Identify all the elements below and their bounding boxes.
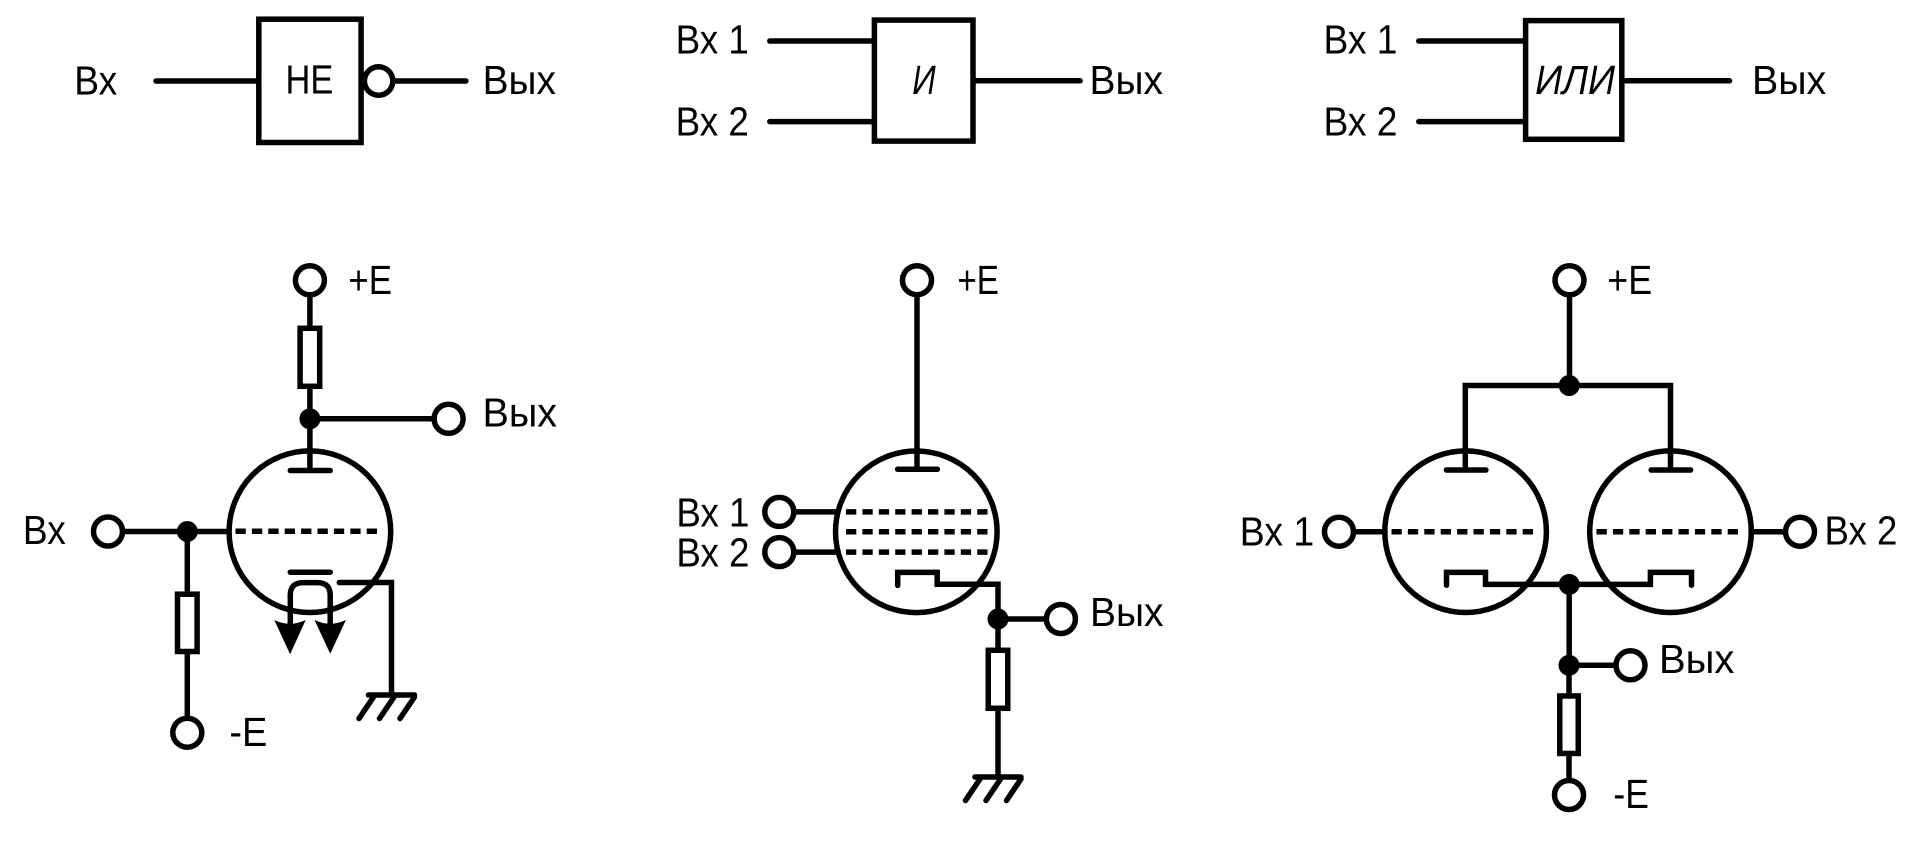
svg-text:Вх 1: Вх 1 bbox=[1324, 16, 1398, 62]
svg-text:+Е: +Е bbox=[957, 257, 999, 303]
label Вх 2 (AND gate) bbox=[676, 99, 749, 145]
svg-text:+Е: +Е bbox=[348, 257, 392, 303]
wire Вх 2 to grid 3 bbox=[794, 549, 837, 555]
label Вых bbox=[1659, 636, 1734, 682]
wire node to Вых terminal bbox=[1569, 663, 1615, 669]
svg-text:Вх 2: Вх 2 bbox=[1324, 99, 1398, 145]
svg-text:Вх 2: Вх 2 bbox=[676, 99, 749, 145]
heater arrow left bbox=[274, 620, 305, 654]
terminal -Е bbox=[1555, 781, 1584, 810]
vacuum tube V1 envelope bbox=[229, 451, 391, 613]
cathode V2 with lead bbox=[898, 572, 998, 619]
label Вых (OR gate output) bbox=[1752, 57, 1826, 103]
ground (chassis) bbox=[359, 695, 415, 719]
svg-text:Вх 2: Вх 2 bbox=[676, 530, 749, 576]
label Вх 2 (tube OR) bbox=[1825, 508, 1898, 554]
svg-text:+Е: +Е bbox=[1607, 257, 1652, 303]
wire R4 to -Е terminal bbox=[1566, 754, 1572, 780]
node cathodes junction bbox=[1559, 574, 1580, 595]
terminal +Е (tube AND circuit) bbox=[903, 266, 932, 295]
svg-text:Вых: Вых bbox=[483, 57, 556, 103]
terminal +Е (tube NOT circuit) bbox=[295, 266, 324, 295]
label Вх 1 (AND gate) bbox=[676, 16, 749, 62]
svg-text:Вх 1: Вх 1 bbox=[676, 489, 749, 535]
svg-text:-Е: -Е bbox=[1613, 771, 1649, 817]
logic gate И box bbox=[874, 20, 973, 141]
label Вх 2 (OR gate) bbox=[1324, 99, 1398, 145]
svg-text:НЕ: НЕ bbox=[286, 56, 334, 102]
svg-text:ИЛИ: ИЛИ bbox=[1535, 57, 1616, 103]
wire node to resistor R3 bbox=[995, 619, 1001, 652]
node cathode output bbox=[988, 609, 1009, 630]
terminal -Е bbox=[173, 718, 202, 747]
wire AND input 2 bbox=[770, 119, 873, 125]
wire AND gate output bbox=[974, 78, 1080, 84]
wire OR gate output bbox=[1622, 78, 1730, 84]
label ИЛИ bbox=[1535, 57, 1616, 103]
label И bbox=[912, 57, 936, 103]
anode V1 bbox=[290, 468, 330, 474]
svg-text:Вх 2: Вх 2 bbox=[1825, 508, 1898, 554]
terminal Вых (tube OR) bbox=[1616, 651, 1645, 680]
heater arrow right bbox=[315, 620, 346, 654]
node anode bus bbox=[1559, 375, 1580, 396]
vacuum tube V4 envelope bbox=[1590, 451, 1752, 613]
wire node to anode bbox=[307, 419, 313, 470]
label -Е bbox=[1613, 771, 1649, 817]
wire cathode node down bbox=[1566, 584, 1572, 665]
anode bus wire bbox=[1465, 386, 1670, 471]
wire NOT gate output bbox=[396, 78, 466, 84]
svg-text:Вх: Вх bbox=[74, 58, 117, 104]
resistor R3 (cathode load) bbox=[988, 650, 1008, 708]
label НЕ bbox=[286, 56, 334, 102]
wire +Е to anode bus bbox=[1567, 297, 1573, 386]
svg-text:Вх: Вх bbox=[23, 507, 66, 553]
label Вх 1 (tube AND) bbox=[676, 489, 749, 535]
terminal Вх 1 bbox=[765, 497, 794, 526]
label Вх 1 (tube OR) bbox=[1240, 508, 1314, 554]
vacuum tube V3 envelope bbox=[1385, 451, 1547, 613]
label Вх (NOT gate input) bbox=[74, 58, 117, 104]
label Вх 1 (OR gate) bbox=[1324, 16, 1398, 62]
label +Е bbox=[1607, 257, 1652, 303]
wire Вх 1 to grid 1 bbox=[794, 509, 837, 515]
label Вх (tube NOT input) bbox=[23, 507, 66, 553]
wire node to resistor R4 bbox=[1566, 665, 1572, 697]
wire cathode lead to ground bbox=[339, 583, 391, 693]
cathode V1 bbox=[290, 569, 330, 575]
svg-text:Вых: Вых bbox=[1659, 636, 1734, 682]
wire input node down to resistor R2 bbox=[185, 532, 191, 597]
terminal Вых (tube NOT circuit) bbox=[434, 404, 463, 433]
grid V3 (dashed) bbox=[1392, 529, 1534, 535]
resistor R4 (cathode load) bbox=[1560, 696, 1579, 754]
heater filament V1 (arch) bbox=[290, 583, 330, 632]
wire R3 to ground bbox=[995, 708, 1001, 775]
anode V2 bbox=[898, 466, 938, 472]
wire +Е to resistor R1 bbox=[307, 297, 313, 330]
terminal Вх 1 bbox=[1325, 517, 1354, 546]
svg-text:И: И bbox=[912, 57, 936, 103]
node output junction bbox=[1559, 655, 1580, 676]
svg-text:-Е: -Е bbox=[229, 709, 267, 755]
vacuum tube V2 envelope bbox=[836, 451, 998, 613]
cathode V4 with lead bbox=[1569, 572, 1691, 585]
anode V4 bbox=[1651, 467, 1690, 473]
wire node to Вых terminal bbox=[998, 616, 1045, 622]
terminal Вх 2 bbox=[1786, 517, 1815, 546]
wire +Е to anode bbox=[914, 297, 920, 469]
terminal Вх 2 bbox=[765, 538, 794, 567]
svg-text:Вых: Вых bbox=[1752, 57, 1826, 103]
label +Е bbox=[348, 257, 392, 303]
wire NOT gate input bbox=[156, 78, 258, 84]
node input junction bbox=[177, 521, 198, 542]
wire output node to Вых terminal bbox=[310, 416, 433, 422]
label Вх 2 (tube AND) bbox=[676, 530, 749, 576]
ground (chassis) bbox=[966, 777, 1022, 801]
label Вых (AND gate output) bbox=[1090, 57, 1164, 103]
wire R2 to -Е terminal bbox=[185, 652, 191, 717]
wire Вх 2 to grid V4 bbox=[1751, 529, 1786, 535]
svg-text:Вх 1: Вх 1 bbox=[1240, 508, 1314, 554]
node output (anode junction) bbox=[299, 408, 320, 429]
anode V3 bbox=[1446, 467, 1486, 473]
terminal Вых (tube AND) bbox=[1046, 605, 1075, 634]
logic gate ИЛИ box bbox=[1526, 21, 1622, 140]
cathode V3 with lead bbox=[1447, 572, 1570, 585]
grid V1 (dashed) bbox=[236, 529, 378, 535]
label +Е bbox=[957, 257, 999, 303]
svg-text:Вых: Вых bbox=[1090, 589, 1164, 635]
logic gate НЕ box bbox=[259, 19, 361, 142]
resistor R1 (anode load) bbox=[300, 328, 320, 386]
wire Вх 1 to grid V3 bbox=[1354, 529, 1386, 535]
svg-text:Вых: Вых bbox=[483, 390, 558, 436]
svg-text:Вх 1: Вх 1 bbox=[676, 16, 749, 62]
wire AND input 1 bbox=[770, 38, 873, 44]
wire OR input 2 bbox=[1419, 119, 1524, 125]
grid V4 (dashed) bbox=[1597, 529, 1739, 535]
label Вых bbox=[483, 390, 558, 436]
wire Вх terminal to grid bbox=[123, 529, 229, 535]
svg-text:Вых: Вых bbox=[1090, 57, 1164, 103]
wire OR input 1 bbox=[1419, 38, 1524, 44]
label Вых (NOT gate output) bbox=[483, 57, 556, 103]
resistor R2 (grid bias) bbox=[178, 594, 198, 651]
label -Е bbox=[229, 709, 267, 755]
terminal Вх bbox=[94, 517, 123, 546]
grid 2 V2 (dashed) bbox=[846, 529, 988, 535]
grid 3 V2 (dashed) bbox=[846, 549, 988, 555]
wire R1 to output node bbox=[307, 386, 313, 419]
label Вых bbox=[1090, 589, 1164, 635]
terminal +Е (tube OR circuit) bbox=[1555, 266, 1584, 295]
inversion bubble bbox=[364, 67, 392, 95]
grid 1 V2 (dashed) bbox=[846, 509, 988, 515]
